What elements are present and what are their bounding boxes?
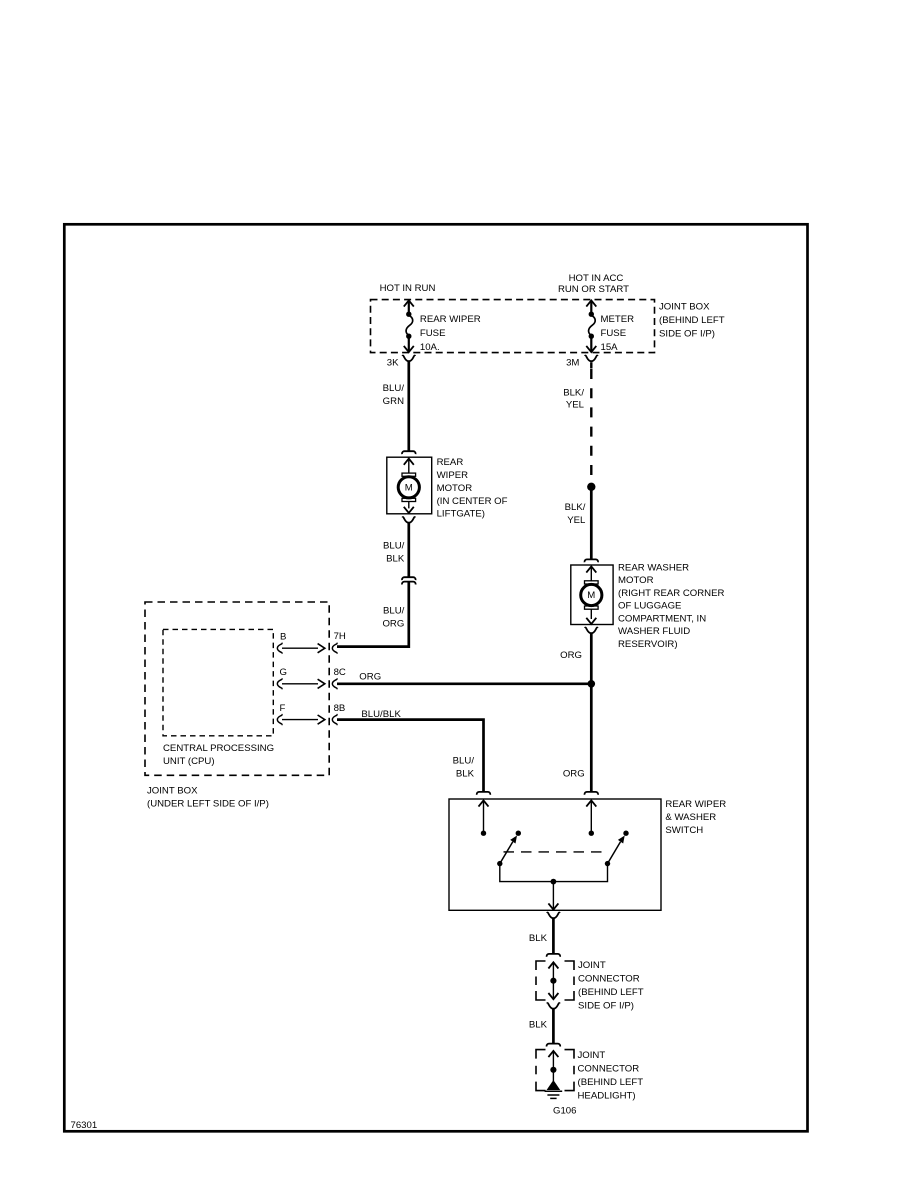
svg-text:ORG: ORG [560,650,582,661]
svg-text:JOINT BOX: JOINT BOX [147,786,198,797]
svg-text:OF LUGGAGE: OF LUGGAGE [618,601,681,612]
svg-text:(UNDER LEFT SIDE OF I/P): (UNDER LEFT SIDE OF I/P) [147,799,269,810]
svg-text:BLU/: BLU/ [383,541,405,552]
svg-text:REAR WASHER: REAR WASHER [618,562,689,573]
svg-text:15A: 15A [601,342,619,353]
svg-text:BLU/: BLU/ [383,383,405,394]
svg-text:(BEHIND LEFT: (BEHIND LEFT [578,1077,644,1088]
svg-text:& WASHER: & WASHER [665,812,716,823]
svg-text:SIDE OF I/P): SIDE OF I/P) [578,1001,634,1012]
svg-text:BLU/BLK: BLU/BLK [361,709,401,720]
svg-text:UNIT (CPU): UNIT (CPU) [163,756,215,767]
svg-text:WIPER: WIPER [437,470,469,481]
svg-text:JOINT: JOINT [578,960,606,971]
svg-text:ORG: ORG [563,769,585,780]
svg-text:BLK: BLK [529,1020,548,1031]
svg-text:WASHER FLUID: WASHER FLUID [618,626,690,637]
svg-text:CENTRAL PROCESSING: CENTRAL PROCESSING [163,743,274,754]
svg-text:8B: 8B [334,703,346,714]
svg-text:BLK/: BLK/ [565,502,586,513]
svg-text:ORG: ORG [382,619,404,630]
svg-text:YEL: YEL [566,400,585,411]
svg-text:G106: G106 [553,1106,576,1117]
svg-text:BLU/: BLU/ [453,756,475,767]
svg-text:MOTOR: MOTOR [618,575,654,586]
svg-text:F: F [280,703,286,714]
svg-text:RESERVOIR): RESERVOIR) [618,639,678,650]
svg-text:HEADLIGHT): HEADLIGHT) [578,1091,636,1102]
svg-text:BLK: BLK [386,554,405,565]
svg-text:BLK: BLK [529,933,548,944]
svg-text:(RIGHT REAR CORNER: (RIGHT REAR CORNER [618,588,724,599]
svg-text:GRN: GRN [383,396,404,407]
svg-text:MOTOR: MOTOR [437,483,473,494]
svg-text:G: G [280,667,287,678]
svg-text:10A.: 10A. [420,342,440,353]
svg-text:BLU/: BLU/ [383,606,405,617]
svg-text:8C: 8C [334,667,346,678]
svg-text:3K: 3K [387,358,399,369]
svg-text:REAR WIPER: REAR WIPER [420,314,481,325]
svg-text:BLK: BLK [456,769,475,780]
svg-text:CONNECTOR: CONNECTOR [578,974,640,985]
svg-text:3M: 3M [566,358,579,369]
svg-text:COMPARTMENT, IN: COMPARTMENT, IN [618,613,706,624]
svg-text:(BEHIND LEFT: (BEHIND LEFT [578,987,644,998]
svg-text:BLK/: BLK/ [563,388,584,399]
svg-text:FUSE: FUSE [420,328,446,339]
svg-text:HOT IN RUN: HOT IN RUN [380,283,436,294]
svg-text:YEL: YEL [567,515,586,526]
svg-text:LIFTGATE): LIFTGATE) [437,509,485,520]
svg-text:REAR: REAR [437,457,464,468]
svg-text:ORG: ORG [359,671,381,682]
svg-text:B: B [280,631,286,642]
svg-text:SWITCH: SWITCH [665,825,703,836]
svg-text:HOT IN ACC: HOT IN ACC [569,273,624,284]
svg-text:METER: METER [601,314,635,325]
svg-text:FUSE: FUSE [601,328,627,339]
svg-text:76301: 76301 [71,1120,98,1131]
svg-text:SIDE OF I/P): SIDE OF I/P) [659,329,715,340]
svg-text:RUN OR START: RUN OR START [558,284,629,295]
svg-text:REAR WIPER: REAR WIPER [665,799,726,810]
svg-text:(IN CENTER OF: (IN CENTER OF [437,496,508,507]
svg-text:JOINT BOX: JOINT BOX [659,302,710,313]
svg-text:JOINT: JOINT [578,1050,606,1061]
svg-text:CONNECTOR: CONNECTOR [578,1064,640,1075]
svg-text:(BEHIND LEFT: (BEHIND LEFT [659,315,725,326]
svg-text:7H: 7H [334,631,346,642]
